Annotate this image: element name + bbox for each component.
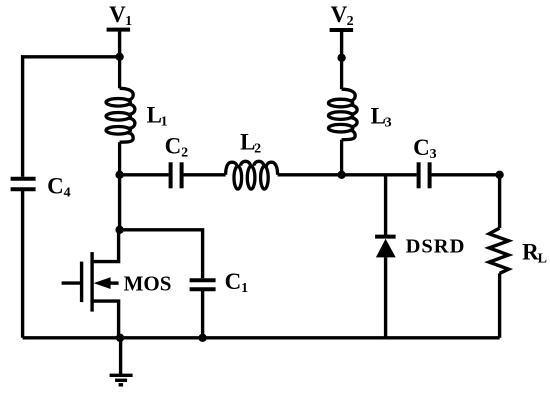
- svg-text:C: C: [225, 269, 242, 294]
- wire L2 to node B: [278, 173, 342, 176]
- capacitor C4: [11, 179, 36, 190]
- svg-text:C: C: [165, 133, 182, 158]
- wire node B to C3: [342, 173, 417, 176]
- svg-text:1: 1: [241, 281, 248, 296]
- MOS body arrow: [94, 277, 111, 289]
- DSRD cathode bar: [375, 235, 396, 239]
- MOS gate bar: [80, 262, 83, 303]
- inductor L3: [328, 58, 357, 175]
- wire drain junction to C1 branch: [120, 230, 203, 278]
- svg-text:MOS: MOS: [124, 271, 172, 295]
- svg-text:R: R: [522, 239, 539, 264]
- svg-text:C: C: [47, 173, 64, 198]
- wire C4 to bottom rail: [21, 189, 24, 337]
- capacitor C3: [419, 162, 430, 188]
- wire RL to bottom rail: [498, 273, 501, 337]
- node dot C (C3/RL): [495, 171, 503, 179]
- wire node A to C2: [120, 173, 169, 176]
- wire top-left horizontal: [23, 57, 120, 177]
- resistor RL: [489, 228, 509, 273]
- MOS channel bar: [90, 252, 93, 311]
- wire MOS source lead to bottom rail: [92, 301, 119, 338]
- wire node B rail down to DSRD cathode: [384, 175, 387, 236]
- node dot V2: [337, 54, 345, 62]
- supply V2 bar: [330, 28, 354, 32]
- wire C1 to bottom rail: [201, 289, 204, 338]
- inductor L1: [106, 57, 135, 175]
- svg-text:DSRD: DSRD: [406, 235, 466, 257]
- svg-text:C: C: [413, 135, 430, 160]
- capacitor C2: [171, 162, 182, 188]
- svg-text:2: 2: [254, 141, 261, 156]
- wire MOS drain lead: [92, 230, 119, 262]
- wire node C down to RL: [498, 175, 501, 228]
- supply V1 bar: [107, 28, 131, 32]
- wire node B down to MOS drain junction: [118, 175, 121, 230]
- capacitor C1: [190, 280, 216, 289]
- transistor MOS: [62, 230, 119, 338]
- DSRD anode triangle: [376, 239, 396, 258]
- svg-text:1: 1: [125, 14, 132, 29]
- MOS gate lead: [62, 281, 81, 284]
- node dot drain: [115, 226, 123, 234]
- svg-text:4: 4: [64, 185, 71, 200]
- wire V1 stem: [118, 30, 121, 57]
- node dot B (L3/C3/DSRD): [337, 171, 345, 179]
- diode DSRD: [375, 237, 396, 258]
- svg-text:3: 3: [430, 147, 437, 162]
- svg-text:3: 3: [385, 115, 392, 130]
- wire C3 to node C: [430, 173, 500, 176]
- ground: [110, 338, 133, 385]
- svg-text:V: V: [109, 2, 126, 27]
- node dot A (L1/C2/MOS): [115, 171, 123, 179]
- wire MOS body lead: [109, 281, 119, 284]
- node dot ground: [116, 334, 124, 342]
- svg-text:2: 2: [181, 145, 188, 160]
- node dot V1: [115, 53, 123, 61]
- svg-text:2: 2: [347, 14, 354, 29]
- wire bottom rail: [23, 336, 500, 339]
- wire V2 stem: [340, 30, 343, 58]
- svg-text:V: V: [331, 2, 348, 27]
- node dot C1 bottom: [198, 334, 206, 342]
- wire C2 to L2: [182, 173, 226, 176]
- wire DSRD anode to bottom rail: [384, 257, 387, 337]
- svg-text:L: L: [538, 251, 547, 266]
- inductor L2: [226, 161, 278, 189]
- svg-text:1: 1: [161, 114, 168, 129]
